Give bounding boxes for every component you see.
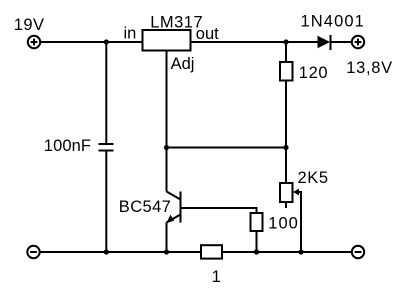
wire left branch upper	[105, 41, 107, 144]
svg-text:in: in	[124, 25, 137, 43]
svg-text:13,8V: 13,8V	[346, 59, 393, 77]
wire base to R2	[181, 208, 257, 213]
node input junction	[104, 39, 109, 44]
svg-text:1N4001: 1N4001	[301, 12, 365, 30]
capacitor C1 100nF	[99, 144, 114, 151]
svg-text:BC547: BC547	[119, 198, 171, 216]
wire bottom rail left	[40, 251, 201, 253]
potentiometer P1 wiper arrow	[293, 189, 301, 252]
node bottom emitter	[164, 249, 169, 254]
resistor R1 120	[280, 62, 293, 81]
svg-text:Adj: Adj	[171, 55, 195, 73]
wire potentiometer bottom stub	[285, 202, 287, 208]
transistor Q1 BC547	[167, 148, 181, 223]
potentiometer P1 2K5 body	[280, 183, 293, 202]
terminal output negative	[352, 246, 364, 258]
svg-text:100nF: 100nF	[44, 137, 91, 155]
wire bottom rail right	[222, 251, 352, 253]
wire emitter down	[166, 223, 168, 253]
wire adj pin down	[166, 51, 168, 148]
terminal output positive (13,8V)	[352, 36, 364, 48]
node bottom left branch	[104, 249, 109, 254]
svg-text:out: out	[196, 25, 219, 43]
node adj rail left	[164, 145, 169, 150]
svg-text:1: 1	[212, 268, 221, 286]
node out junction	[283, 39, 288, 44]
wire adj rail to potentiometer	[285, 148, 287, 184]
terminal input negative	[27, 246, 39, 258]
node adj rail right	[283, 145, 288, 150]
svg-text:100: 100	[268, 215, 299, 233]
wire adj rail	[167, 147, 287, 149]
svg-text:19V: 19V	[14, 16, 45, 34]
svg-text:120: 120	[299, 64, 328, 82]
terminal input positive (19V)	[28, 36, 40, 48]
op-amp U1 LM317 body	[143, 30, 191, 51]
wire input rail	[40, 41, 142, 43]
wire left branch lower	[105, 151, 107, 253]
resistor R3 1	[201, 245, 222, 258]
svg-text:2K5: 2K5	[298, 169, 329, 187]
node bottom R2	[254, 249, 259, 254]
wire R2 to bottom rail	[256, 231, 258, 252]
diode D1 1N4001	[318, 35, 352, 50]
node bottom wiper	[298, 249, 303, 254]
resistor R2 100	[251, 213, 263, 231]
wire out junction to R1	[285, 42, 287, 62]
wire R1 to adj rail	[285, 81, 287, 148]
wire out to diode	[191, 41, 318, 43]
